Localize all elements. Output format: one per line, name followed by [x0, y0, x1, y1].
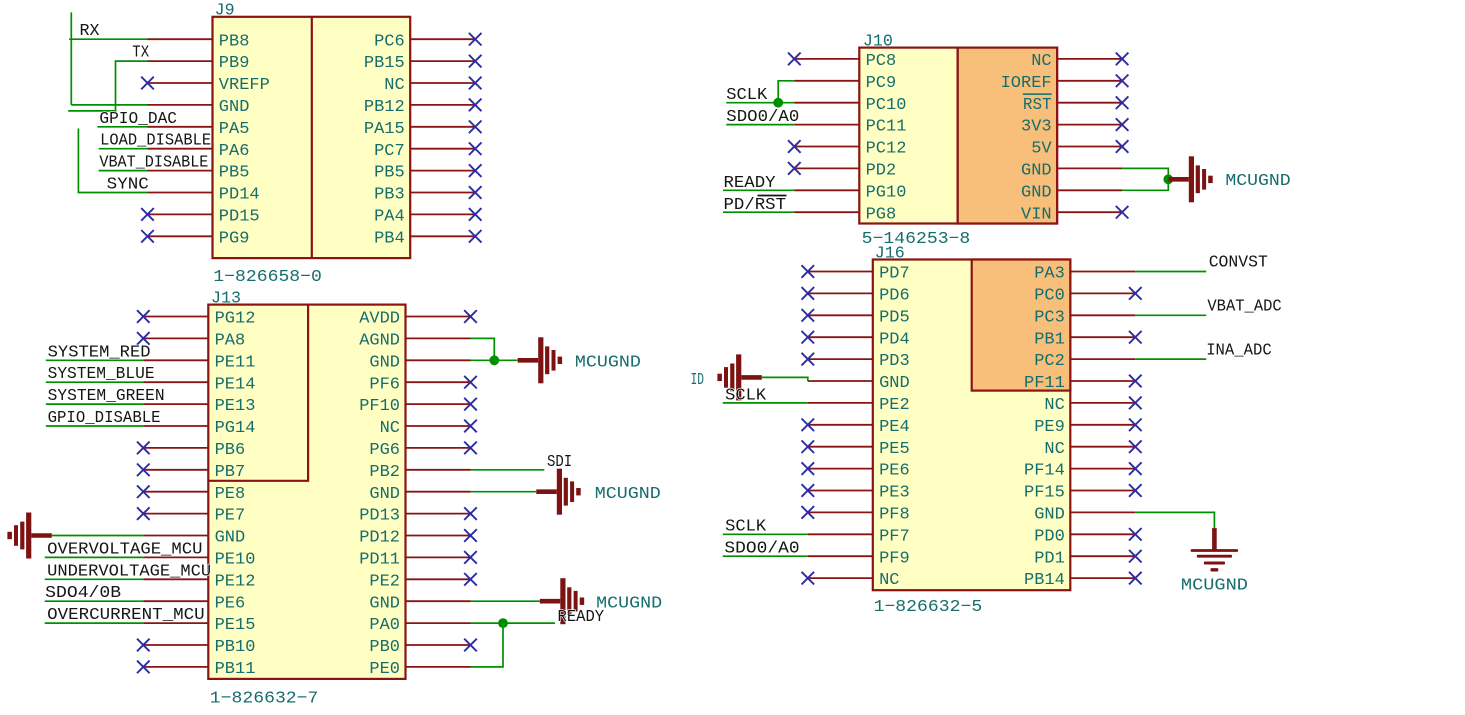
J13 pin PE0 (right)	[406, 666, 471, 668]
svg-text:PD0: PD0	[1034, 527, 1065, 546]
svg-text:PB6: PB6	[215, 441, 246, 460]
J10 pin PC12 (left)	[794, 146, 859, 148]
J13 pin PB7 (left)	[143, 469, 208, 471]
svg-text:INA_ADC: INA_ADC	[1206, 342, 1272, 361]
svg-text:GND: GND	[369, 485, 400, 504]
J9 pin PB4 (right)	[410, 235, 475, 237]
wire LOAD_DISABLE to J9.PA6	[99, 148, 148, 150]
wire SDO4/0B to J13.PE6	[45, 600, 144, 602]
svg-text:PE2: PE2	[369, 572, 400, 591]
J10 pin PD2 (left)	[794, 167, 859, 169]
svg-text:PD4: PD4	[879, 330, 910, 349]
svg-text:PB1: PB1	[1034, 330, 1065, 349]
J13 pin PD11 (right)	[406, 556, 471, 558]
svg-text:1−826632−5: 1−826632−5	[874, 598, 983, 617]
svg-text:NC: NC	[384, 76, 404, 95]
J16 pin NC (right)	[1070, 446, 1135, 448]
svg-text:1−826658−0: 1−826658−0	[213, 268, 322, 287]
J9 pin PA5 (left)	[148, 126, 213, 128]
J16 pin PD0 (right)	[1070, 533, 1135, 535]
J16 pin PD3 (left)	[808, 358, 873, 360]
wire J13.GND to MCUGND	[471, 359, 518, 361]
J13 pin PF6 (right)	[406, 381, 471, 383]
svg-text:PG8: PG8	[866, 205, 897, 224]
J10 pin PG10 (left)	[794, 189, 859, 191]
wire VBAT_DISABLE to J9.PB5	[99, 170, 148, 172]
J13 pin GND (right)	[406, 600, 471, 602]
svg-text:J13: J13	[211, 290, 241, 309]
J13 pin AVDD (right)	[406, 316, 471, 318]
svg-text:NC: NC	[1044, 440, 1064, 459]
J13 pin PE10 (left)	[143, 556, 208, 558]
svg-text:PE7: PE7	[215, 507, 246, 526]
J13 pin PG6 (right)	[406, 447, 471, 449]
power symbol MCUGND at J16 left (mirrored)	[741, 375, 762, 380]
J10 pin VIN (right)	[1057, 211, 1122, 213]
wire GPIO_DISABLE to J13.PG14	[46, 425, 144, 427]
J10 pin GND (right)	[1057, 167, 1122, 169]
J13 pin GND (right)	[406, 491, 471, 493]
J9 pin PA6 (left)	[148, 148, 213, 150]
J13 pin PF10 (right)	[406, 403, 471, 405]
J9 pin PB15 (right)	[410, 60, 475, 62]
svg-text:PD7: PD7	[879, 265, 910, 284]
J9 pin PC7 (right)	[410, 148, 475, 150]
power symbol MCUGND earth style	[1212, 528, 1217, 550]
J16 pin PD7 (left)	[808, 271, 873, 273]
svg-text:PE10: PE10	[215, 551, 256, 570]
wire GPIO_DAC to J9.PA5	[97, 126, 147, 128]
svg-text:PD11: PD11	[359, 551, 400, 570]
svg-text:MCUGND: MCUGND	[596, 594, 662, 613]
J16 pin PF7 (left)	[808, 533, 873, 535]
svg-text:PD14: PD14	[219, 186, 260, 205]
svg-text:3V3: 3V3	[1021, 118, 1052, 137]
J16 pin PE5 (left)	[808, 446, 873, 448]
svg-text:PF11: PF11	[1024, 374, 1065, 393]
J16 pin PC3 (right)	[1070, 314, 1135, 316]
J16 pin PF15 (right)	[1070, 490, 1135, 492]
svg-text:PA3: PA3	[1034, 265, 1065, 284]
svg-text:PA15: PA15	[364, 120, 405, 139]
svg-text:PB8: PB8	[219, 32, 250, 51]
svg-text:PA4: PA4	[374, 208, 405, 227]
J16 pin PD5 (left)	[808, 314, 873, 316]
svg-text:PB12: PB12	[364, 98, 405, 117]
wire OVERCURRENT_MCU to J13.PE15	[45, 622, 144, 624]
J13 pin PE14 (left)	[143, 381, 208, 383]
J16 orange unit fill	[972, 260, 1071, 391]
svg-text:PA0: PA0	[369, 616, 400, 635]
svg-text:PC9: PC9	[866, 74, 897, 93]
wire VBAT_ADC from J16.PC3	[1135, 314, 1206, 316]
wire INA_ADC from J16.PC2	[1135, 358, 1206, 360]
svg-text:PB4: PB4	[374, 229, 405, 248]
power symbol MCUGND at J13.GND(9)	[536, 489, 557, 494]
svg-text:LOAD_DISABLE: LOAD_DISABLE	[100, 132, 211, 151]
svg-text:1−826632−7: 1−826632−7	[210, 690, 319, 709]
J9 pin PB9 (left)	[148, 60, 213, 62]
wire OVERVOLTAGE_MCU to J13.PE10	[45, 556, 144, 558]
svg-text:PC12: PC12	[866, 140, 907, 159]
wire SYSTEM_GREEN to J13.PE13	[46, 403, 144, 405]
svg-text:PB11: PB11	[215, 660, 256, 679]
J13 pin NC (right)	[406, 425, 471, 427]
svg-text:PC6: PC6	[374, 32, 405, 51]
svg-text:PE4: PE4	[879, 418, 910, 437]
J13 pin PD13 (right)	[406, 513, 471, 515]
J10 pin PG8 (left)	[794, 211, 859, 213]
junction AGND/GND	[489, 355, 499, 365]
J16 pin PD4 (left)	[808, 336, 873, 338]
svg-text:NC: NC	[879, 571, 899, 590]
wire SCLK to J10.PC10	[726, 102, 794, 104]
svg-text:GPIO_DAC: GPIO_DAC	[99, 110, 177, 129]
J10 orange unit fill	[958, 48, 1058, 224]
svg-text:RX: RX	[80, 22, 100, 41]
svg-text:PC11: PC11	[866, 118, 907, 137]
wire J10.PC9 branch	[778, 81, 794, 103]
wire vertical bus stub left of J9	[70, 12, 72, 105]
J16 pin GND (right)	[1070, 511, 1135, 513]
svg-text:J9: J9	[215, 2, 235, 21]
svg-text:PF10: PF10	[359, 397, 400, 416]
J10 pin 5V (right)	[1057, 146, 1122, 148]
J13 pin PG14 (left)	[143, 425, 208, 427]
J16 pin PB1 (right)	[1070, 336, 1135, 338]
J9 pin GND (left)	[148, 104, 213, 106]
svg-text:VBAT_ADC: VBAT_ADC	[1207, 298, 1281, 317]
J10 pin PC8 (left)	[794, 58, 859, 60]
J13 pin PB10 (left)	[143, 644, 208, 646]
J13 pin PE12 (left)	[143, 578, 208, 580]
J13 pin PB6 (left)	[143, 447, 208, 449]
svg-text:PD5: PD5	[879, 308, 910, 327]
J13 pin PE6 (left)	[143, 600, 208, 602]
svg-text:5V: 5V	[1031, 140, 1052, 159]
J9 pin PB12 (right)	[410, 104, 475, 106]
wire READY from J13.PA0	[471, 622, 556, 624]
svg-text:GND: GND	[1021, 183, 1052, 202]
J13 pin PA0 (right)	[406, 622, 471, 624]
svg-text:GND: GND	[369, 594, 400, 613]
svg-text:VIN: VIN	[1021, 205, 1052, 224]
wire SCLK to J16.PF7	[723, 533, 808, 535]
wire SYSTEM_RED to J13.PE11	[46, 359, 144, 361]
svg-text:PD1: PD1	[1034, 549, 1065, 568]
J16 pin PE9 (right)	[1070, 424, 1135, 426]
J10 pin PC11 (left)	[794, 124, 859, 126]
wire SDI from J13.PB2	[471, 469, 545, 471]
svg-text:J16: J16	[875, 245, 905, 264]
J13 pin GND (left)	[143, 535, 208, 537]
svg-text:PF15: PF15	[1024, 484, 1065, 503]
svg-text:PE13: PE13	[215, 397, 256, 416]
svg-text:PF6: PF6	[369, 375, 400, 394]
svg-text:PE3: PE3	[879, 484, 910, 503]
svg-text:SDO0/A0: SDO0/A0	[726, 108, 799, 127]
J10 pin ~RST (right)	[1057, 102, 1122, 104]
J9 pin NC (right)	[410, 82, 475, 84]
junction SCLK	[773, 98, 783, 108]
svg-text:PB15: PB15	[364, 54, 405, 73]
svg-text:PC3: PC3	[1034, 308, 1065, 327]
svg-text:PG12: PG12	[215, 310, 256, 329]
svg-text:PD/RST: PD/RST	[724, 196, 787, 215]
svg-text:CONVST: CONVST	[1209, 254, 1268, 273]
svg-text:PB2: PB2	[369, 463, 400, 482]
svg-text:PC8: PC8	[866, 52, 897, 71]
svg-text:READY: READY	[558, 608, 605, 627]
J13 pin PE2 (right)	[406, 578, 471, 580]
J16 pin GND (left)	[808, 380, 873, 382]
wire SDO0/A0 to J16.PF9	[723, 555, 808, 557]
svg-text:PE14: PE14	[215, 375, 256, 394]
svg-text:PD2: PD2	[866, 162, 897, 181]
J16 pin PF11 (right)	[1070, 380, 1135, 382]
svg-text:GND: GND	[879, 374, 910, 393]
svg-text:PE11: PE11	[215, 353, 256, 372]
wire SYSTEM_BLUE to J13.PE14	[46, 381, 144, 383]
wire J13.GND(14) to MCUGND	[471, 600, 540, 602]
J13 pin PE13 (left)	[143, 403, 208, 405]
wire GND row J9	[71, 104, 147, 106]
power symbol MCUGND at J13.GND(14)	[540, 599, 561, 604]
connector J9 body	[213, 17, 411, 258]
svg-text:GND: GND	[219, 98, 250, 117]
connector J13 body	[208, 305, 405, 679]
J16 pin PD6 (left)	[808, 292, 873, 294]
J16 pin PF14 (right)	[1070, 468, 1135, 470]
J13 pin PB2 (right)	[406, 469, 471, 471]
svg-text:PE6: PE6	[879, 462, 910, 481]
J10 pin PC9 (left)	[794, 80, 859, 82]
wire TX net to J9.PB9	[68, 61, 147, 111]
J16 pin PE2 (left)	[808, 402, 873, 404]
svg-text:PD15: PD15	[219, 208, 260, 227]
J10 column divider	[956, 48, 958, 224]
svg-text:GND: GND	[1034, 506, 1065, 525]
J13 pin PD12 (right)	[406, 535, 471, 537]
svg-text:RST: RST	[1023, 96, 1052, 115]
J10 pin GND (right)	[1057, 189, 1122, 191]
wire UNDERVOLTAGE_MCU to J13.PE12	[45, 578, 144, 580]
svg-text:PG6: PG6	[369, 441, 400, 460]
svg-text:PB10: PB10	[215, 638, 256, 657]
wire MCUGND to J16.GND with jog	[762, 377, 808, 381]
J16 pin NC (left)	[808, 577, 873, 579]
svg-text:PC0: PC0	[1034, 287, 1065, 306]
svg-text:PB0: PB0	[369, 638, 400, 657]
svg-text:NC: NC	[380, 419, 400, 438]
svg-text:PG10: PG10	[866, 183, 907, 202]
J13 pin AGND (right)	[406, 337, 471, 339]
wire J13.GND(9) to MCUGND	[471, 491, 537, 493]
svg-text:PE15: PE15	[215, 616, 256, 635]
J9 pin PB5 (right)	[410, 170, 475, 172]
connector J16 body	[873, 260, 1071, 591]
J16 pin PB14 (right)	[1070, 577, 1135, 579]
J9 pin PB5 (left)	[148, 170, 213, 172]
J16 pin PE3 (left)	[808, 490, 873, 492]
J16 pin PE6 (left)	[808, 468, 873, 470]
J16 pin PE4 (left)	[808, 424, 873, 426]
svg-text:GND: GND	[1021, 162, 1052, 181]
svg-text:PA6: PA6	[219, 142, 250, 161]
wire SDO0/A0 to J10.PC11	[726, 124, 794, 126]
svg-text:PF9: PF9	[879, 549, 910, 568]
svg-text:PA5: PA5	[219, 120, 250, 139]
svg-text:AGND: AGND	[359, 332, 400, 351]
svg-text:PE2: PE2	[879, 396, 910, 415]
power symbol MCUGND at J13.GND left	[31, 533, 52, 538]
svg-text:PC7: PC7	[374, 142, 405, 161]
wire MCUGND to J13.GND	[52, 535, 144, 537]
connector J10 body	[859, 48, 1057, 224]
wire J10.GND pins to MCUGND	[1122, 168, 1168, 190]
wire CONVST from J16.PA3	[1135, 271, 1206, 273]
svg-text:PE6: PE6	[215, 594, 246, 613]
J9 pin PD15 (left)	[148, 213, 213, 215]
J9 column divider	[311, 17, 313, 258]
svg-text:PB9: PB9	[219, 54, 250, 73]
svg-text:PF14: PF14	[1024, 462, 1065, 481]
svg-text:SCLK: SCLK	[726, 86, 768, 105]
svg-text:MCUGND: MCUGND	[575, 353, 641, 372]
svg-text:VBAT_DISABLE: VBAT_DISABLE	[99, 154, 208, 173]
wire RX net to J9.PB8	[69, 38, 147, 40]
J13 pin PE15 (left)	[143, 622, 208, 624]
power symbol MCUGND at J13 AGND/GND	[518, 358, 539, 363]
wire SCLK to J16.PE2	[723, 402, 808, 404]
J16 pin PC0 (right)	[1070, 292, 1135, 294]
junction PA0/PE0	[498, 618, 508, 628]
J9 pin PC6 (right)	[410, 38, 475, 40]
svg-text:PD12: PD12	[359, 529, 400, 548]
svg-text:PB7: PB7	[215, 463, 246, 482]
J9 pin PA4 (right)	[410, 213, 475, 215]
J13 inner unit outline	[208, 305, 308, 481]
svg-text:GND: GND	[215, 529, 246, 548]
junction GND	[1163, 174, 1173, 184]
J9 pin PA15 (right)	[410, 126, 475, 128]
svg-text:AVDD: AVDD	[359, 310, 400, 329]
svg-text:PF8: PF8	[879, 506, 910, 525]
svg-text:PB5: PB5	[374, 164, 405, 183]
svg-text:PE0: PE0	[369, 660, 400, 679]
J13 pin PG12 (left)	[143, 316, 208, 318]
J10 pin 3V3 (right)	[1057, 124, 1122, 126]
svg-text:NC: NC	[1031, 52, 1051, 71]
svg-text:VREFP: VREFP	[219, 76, 270, 95]
svg-text:TX: TX	[132, 43, 149, 62]
J9 pin PG9 (left)	[148, 235, 213, 237]
J13 pin GND (right)	[406, 359, 471, 361]
svg-text:PB14: PB14	[1024, 571, 1065, 590]
svg-text:IOREF: IOREF	[1001, 74, 1052, 93]
svg-text:ID: ID	[691, 371, 705, 390]
J13 pin PE7 (left)	[143, 513, 208, 515]
svg-text:PC2: PC2	[1034, 352, 1065, 371]
svg-text:MCUGND: MCUGND	[1225, 172, 1290, 191]
svg-text:J10: J10	[863, 33, 893, 52]
J10 pin IOREF (right)	[1057, 80, 1122, 82]
svg-text:PD6: PD6	[879, 287, 910, 306]
J13 pin PA8 (left)	[143, 337, 208, 339]
svg-text:SYNC: SYNC	[107, 176, 149, 195]
J13 pin PB11 (left)	[143, 666, 208, 668]
wire SYNC to J9.PD14	[78, 129, 147, 193]
svg-text:MCUGND: MCUGND	[595, 485, 661, 504]
svg-text:NC: NC	[1044, 396, 1064, 415]
J9 pin PD14 (left)	[148, 192, 213, 194]
wire J16.GND to earth ground	[1135, 512, 1214, 528]
J16 pin PA3 (right)	[1070, 271, 1135, 273]
svg-text:GND: GND	[369, 353, 400, 372]
svg-text:PD3: PD3	[879, 352, 910, 371]
svg-text:MCUGND: MCUGND	[1181, 577, 1248, 596]
J16 pin PD1 (right)	[1070, 555, 1135, 557]
J16 pin PF9 (left)	[808, 555, 873, 557]
J16 pin PC2 (right)	[1070, 358, 1135, 360]
J10 pin PC10 (left)	[794, 102, 859, 104]
svg-text:PB5: PB5	[219, 164, 250, 183]
J13 pin PE8 (left)	[143, 491, 208, 493]
svg-text:PE12: PE12	[215, 572, 256, 591]
svg-text:PD13: PD13	[359, 507, 400, 526]
svg-text:PG14: PG14	[215, 419, 256, 438]
J16 pin PF8 (left)	[808, 511, 873, 513]
svg-text:PF7: PF7	[879, 527, 910, 546]
svg-text:PE5: PE5	[879, 440, 910, 459]
power symbol MCUGND at J10	[1168, 177, 1189, 182]
svg-text:PE9: PE9	[1034, 418, 1065, 437]
J13 pin PB0 (right)	[406, 644, 471, 646]
svg-text:PE8: PE8	[215, 485, 246, 504]
svg-text:PG9: PG9	[219, 229, 250, 248]
svg-text:PC10: PC10	[866, 96, 907, 115]
J16 pin NC (right)	[1070, 402, 1135, 404]
svg-text:PB3: PB3	[374, 186, 405, 205]
J10 pin NC (right)	[1057, 58, 1122, 60]
wire READY to J10.PG10	[723, 189, 794, 191]
J13 pin PE11 (left)	[143, 359, 208, 361]
J9 pin VREFP (left)	[148, 82, 213, 84]
J9 pin PB8 (left)	[148, 38, 213, 40]
wire PD/RST to J10.PG8	[723, 211, 794, 213]
J9 pin PB3 (right)	[410, 192, 475, 194]
svg-text:PA8: PA8	[215, 332, 246, 351]
svg-text:READY: READY	[724, 174, 776, 193]
wire J13.AGND down to GND net	[471, 338, 495, 360]
wire J13.PE0 up to PA0 net	[471, 623, 504, 667]
